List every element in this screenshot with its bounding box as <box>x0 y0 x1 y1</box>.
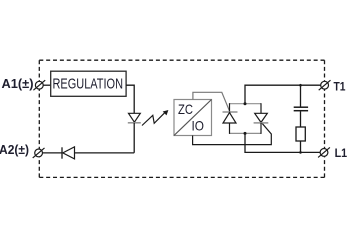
wire T1 line to capacitor <box>300 85 302 106</box>
terminal A1 <box>33 80 45 90</box>
svg-text:REGULATION: REGULATION <box>53 76 124 93</box>
wire regulation box to LED branch <box>126 85 134 113</box>
wire LED to bottom rail <box>133 123 135 153</box>
junction bottom rail <box>244 132 247 135</box>
terminal L1 <box>318 147 330 157</box>
wire capacitor to resistor <box>300 111 302 127</box>
wire resistor to bottom wire <box>300 141 302 152</box>
resistor R1 <box>296 127 305 141</box>
wire bottom rail to L1 <box>245 133 320 152</box>
junction top rail <box>244 102 247 105</box>
terminal A2 <box>33 148 45 158</box>
gate wire from ZC top to left SCR gate <box>193 92 231 113</box>
svg-text:IO: IO <box>192 117 205 133</box>
gate wire from IO bottom to right SCR gate <box>193 123 272 144</box>
regulation box U1 <box>51 71 126 96</box>
LED D2 <box>128 113 141 123</box>
svg-text:A1(±): A1(±) <box>2 77 34 91</box>
ZC/IO coupler box U2 <box>174 100 212 136</box>
light emission zigzag arrow <box>142 110 168 126</box>
junction snubber bottom <box>299 151 302 154</box>
diode D1 <box>62 147 75 159</box>
svg-text:T1: T1 <box>334 79 346 93</box>
wire A2 to diode <box>42 152 62 154</box>
dashed enclosure border <box>39 60 324 177</box>
SCR Q1 (left, conducts up) <box>223 103 238 134</box>
SCR bridge top rail <box>230 103 262 105</box>
junction snubber top <box>299 84 302 87</box>
wire A1 to regulation box <box>43 84 51 86</box>
svg-text:ZC: ZC <box>178 101 193 117</box>
wire top rail to T1 <box>245 85 321 104</box>
terminal T1 <box>319 80 331 90</box>
capacitor C1 <box>294 107 308 111</box>
svg-text:L1: L1 <box>335 146 348 160</box>
SCR Q2 (right, conducts down) <box>254 103 269 134</box>
wire diode to LED branch <box>75 152 135 154</box>
SCR bridge bottom rail <box>230 132 262 134</box>
svg-text:A2(±): A2(±) <box>0 143 29 157</box>
